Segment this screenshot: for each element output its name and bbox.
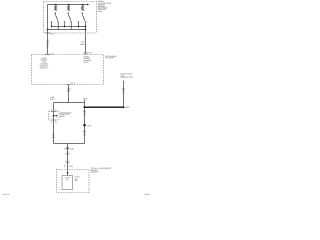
svg-text:16: 16 [64,147,66,150]
wire label Z1 20BK (above connector) [65,151,70,156]
data link connector label [120,72,133,79]
svg-text:9 C1: 9 C1 [50,33,54,36]
svg-text:CONNECTOR: CONNECTOR [120,76,133,79]
svg-text:MODULE: MODULE [91,171,100,174]
cluster right internal text [83,55,91,63]
wire label D25 20VT (below C105) [83,130,87,137]
svg-text:18BK: 18BK [80,43,85,46]
switch SW2 pivot contact [68,13,69,14]
wire: lower horizontal run [54,143,85,145]
in-line connector label C105 [87,124,92,127]
svg-text:C1: C1 [55,109,57,112]
svg-text:23: 23 [66,178,68,181]
connector pin ticks at cluster right entry [83,52,87,54]
in-line connector C105 (solid block on wire) [83,124,85,126]
page footer left [3,193,9,196]
node: rail B right end dot [85,29,87,31]
fuse internal text [65,176,71,181]
page footer right [145,193,150,196]
node: rail junction dot 1 [55,4,57,6]
switch SW1 right throw contact [57,22,59,23]
connector pin ticks at port exit [51,119,55,121]
pin label at cluster left entry [50,53,54,56]
multi-function switch box (dashed enclosure) [44,2,97,34]
svg-text:CLUSTER: CLUSTER [105,57,114,60]
svg-text:4: 4 [51,109,52,112]
wire: left branch down into diagnostic junction port [53,103,55,121]
switch SW2 left throw contact [64,22,66,23]
wire: left contact drops to rail A [52,23,79,26]
wire label V10 20BR (left feed) [46,40,50,48]
wire: cluster exit down to splice run [68,85,70,103]
node: rail A dot 1 [51,26,52,27]
svg-text:J01B-48: J01B-48 [3,193,9,196]
node: rail junction dot 2 [68,4,70,6]
wire: right jog from splice run [84,103,86,144]
arrow: rail continuation arrowhead [87,4,89,6]
arrow: wire arrowhead into TIPM [67,172,69,174]
svg-text:FEED: FEED [83,61,89,64]
wire: lower output rail B [48,29,86,31]
wire label D25 20VT (main vertical) [83,110,87,117]
connector pin ticks at cluster bottom exit [66,84,70,86]
svg-text:20BK: 20BK [65,153,70,156]
node: rail A dot 2 [64,26,65,27]
node: rail junction dot 3 [82,4,84,6]
pin label at switch box exit [50,33,54,36]
switch SW1 pivot contact [55,13,56,14]
resistor R3 (coil element, switch branch 3) [81,5,83,11]
pin label at TIPM entry [69,165,73,168]
wire label Z1 20BK (below connector) [65,159,70,164]
wire label D25 20VT (cluster exit) [67,88,72,93]
wire: center drop to TIPM [67,144,69,173]
in-line connector C126 ticks [66,148,68,149]
svg-text:S201: S201 [83,97,87,100]
splice S201 label with leader [83,97,87,102]
node: splice junction dot S201 [83,106,85,108]
fuse label right [75,175,81,182]
svg-text:4 C2: 4 C2 [88,52,92,55]
svg-text:2: 2 [51,121,52,124]
svg-text:4 C8: 4 C8 [69,165,73,168]
svg-text:3 C3: 3 C3 [71,82,75,85]
resistor R2 (coil element, switch branch 2) [67,5,69,11]
wire: right contact drops to rail B [58,23,85,29]
multi-function switch label (right of box) [98,0,113,13]
svg-text:PORT: PORT [60,115,66,118]
cluster left internal text [39,57,49,70]
instrument cluster label (right of box) [105,55,118,60]
wire label D25 20VT (left branch) [50,96,55,101]
wire: port exit down to lower run [53,120,55,144]
wire: right vertical from rail ends down into cluster [85,27,87,55]
instrument cluster box (dashed enclosure) [32,55,104,85]
wire: upper horizontal splice run [54,102,85,104]
pin label at port entry [51,109,57,112]
switch SW3 pivot contact [82,13,83,14]
diagnostic junction port box (dashed enclosure) [49,112,60,121]
pin tick at TIPM entry [64,165,65,167]
switch SW2 right throw contact [70,22,72,23]
node: rail A right end dot [85,26,87,28]
pin label at port exit [51,121,57,124]
switch SW3 left throw contact [78,22,80,23]
wire: arrow to fuse [67,174,69,175]
data link connector wire [123,81,125,108]
fuse F23 box [62,176,73,190]
connector pin ticks at cluster left entry [45,54,49,56]
TIPM label (right of box) [91,167,112,174]
svg-text:1 C1: 1 C1 [50,53,54,56]
totally integrated power module box (dashed enclosure) [57,170,90,193]
svg-text:S201: S201 [125,106,129,109]
connector pin ticks at port entry [51,111,55,113]
wire: bold run to data link connector [85,106,124,108]
arrow: port stub arrow to right [54,115,59,117]
svg-text:C126: C126 [69,147,74,150]
wire: left vertical from top rail through rail B, exits box down to cluster [47,5,49,55]
svg-text:C1: C1 [55,121,57,124]
switch SW1 left throw contact [51,22,53,23]
switch SW2 arm [68,15,71,21]
switch SW3 arm [82,15,85,21]
svg-text:SHD): SHD) [98,10,103,13]
wire: top feed rail inside switch box [48,4,88,6]
pin label at cluster exit [71,82,75,85]
wire label L61 18BK (right feed) [80,41,85,46]
wire: upper output rail A [52,26,86,28]
wire label D25 20VT (data link) [122,87,126,94]
resistor R1 (coil element, switch branch 1) [54,5,56,11]
pin label at cluster right entry [88,52,92,55]
svg-text:SWITCH: SWITCH [40,66,48,69]
node: rail B left junction dot [47,29,49,31]
switch SW3 right throw contact [85,22,87,23]
node: data link corner dot [123,106,125,108]
svg-text:20BK: 20BK [65,161,70,164]
switch SW1 arm [55,15,58,21]
node: rail A dot 3 [78,26,79,27]
splice label right of corner dot [125,106,129,109]
wire label Z1 20BK (below port) [52,132,55,139]
diagnostic junction port label [60,111,72,118]
node: junction dot inside port [53,115,55,117]
connector pin ticks at switch box exit [45,32,49,34]
svg-text:80B50: 80B50 [145,193,150,196]
svg-text:C105: C105 [87,124,92,127]
in-line connector labels [64,147,74,150]
